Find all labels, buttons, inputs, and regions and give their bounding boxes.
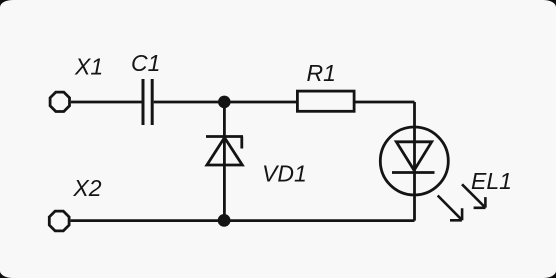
- wire X1 to C1: [71, 101, 142, 104]
- svg-text:C1: C1: [131, 50, 160, 76]
- svg-text:EL1: EL1: [471, 168, 512, 194]
- svg-text:R1: R1: [307, 60, 336, 86]
- svg-text:X2: X2: [72, 175, 101, 201]
- LED EL1 cathode bar: [392, 171, 435, 174]
- bottom wire: [71, 219, 415, 222]
- zener diode VD1 cathode bar: [206, 135, 243, 138]
- zener diode VD1 triangle: [207, 138, 242, 165]
- svg-text:VD1: VD1: [262, 161, 307, 187]
- LED EL1 arrow 1: [438, 196, 462, 221]
- terminal X2: [49, 211, 69, 231]
- resistor R1: [297, 91, 354, 111]
- wire vertical through LED: [413, 102, 416, 221]
- terminal X1: [50, 92, 69, 111]
- capacitor C1 left plate: [142, 79, 145, 125]
- svg-text:X1: X1: [74, 54, 103, 80]
- wire C1 to R1: [154, 101, 297, 104]
- capacitor C1 right plate: [151, 79, 154, 125]
- wire R1 to LED corner: [355, 101, 415, 104]
- LED EL1 arrow 2: [462, 184, 486, 208]
- LED EL1 triangle: [396, 142, 431, 171]
- zener diode VD1 vertical wire: [223, 102, 226, 221]
- zener diode VD1 cathode hook: [240, 137, 243, 149]
- LED EL1 envelope circle: [380, 127, 448, 195]
- node junction bottom: [218, 214, 231, 227]
- node junction top: [218, 96, 231, 109]
